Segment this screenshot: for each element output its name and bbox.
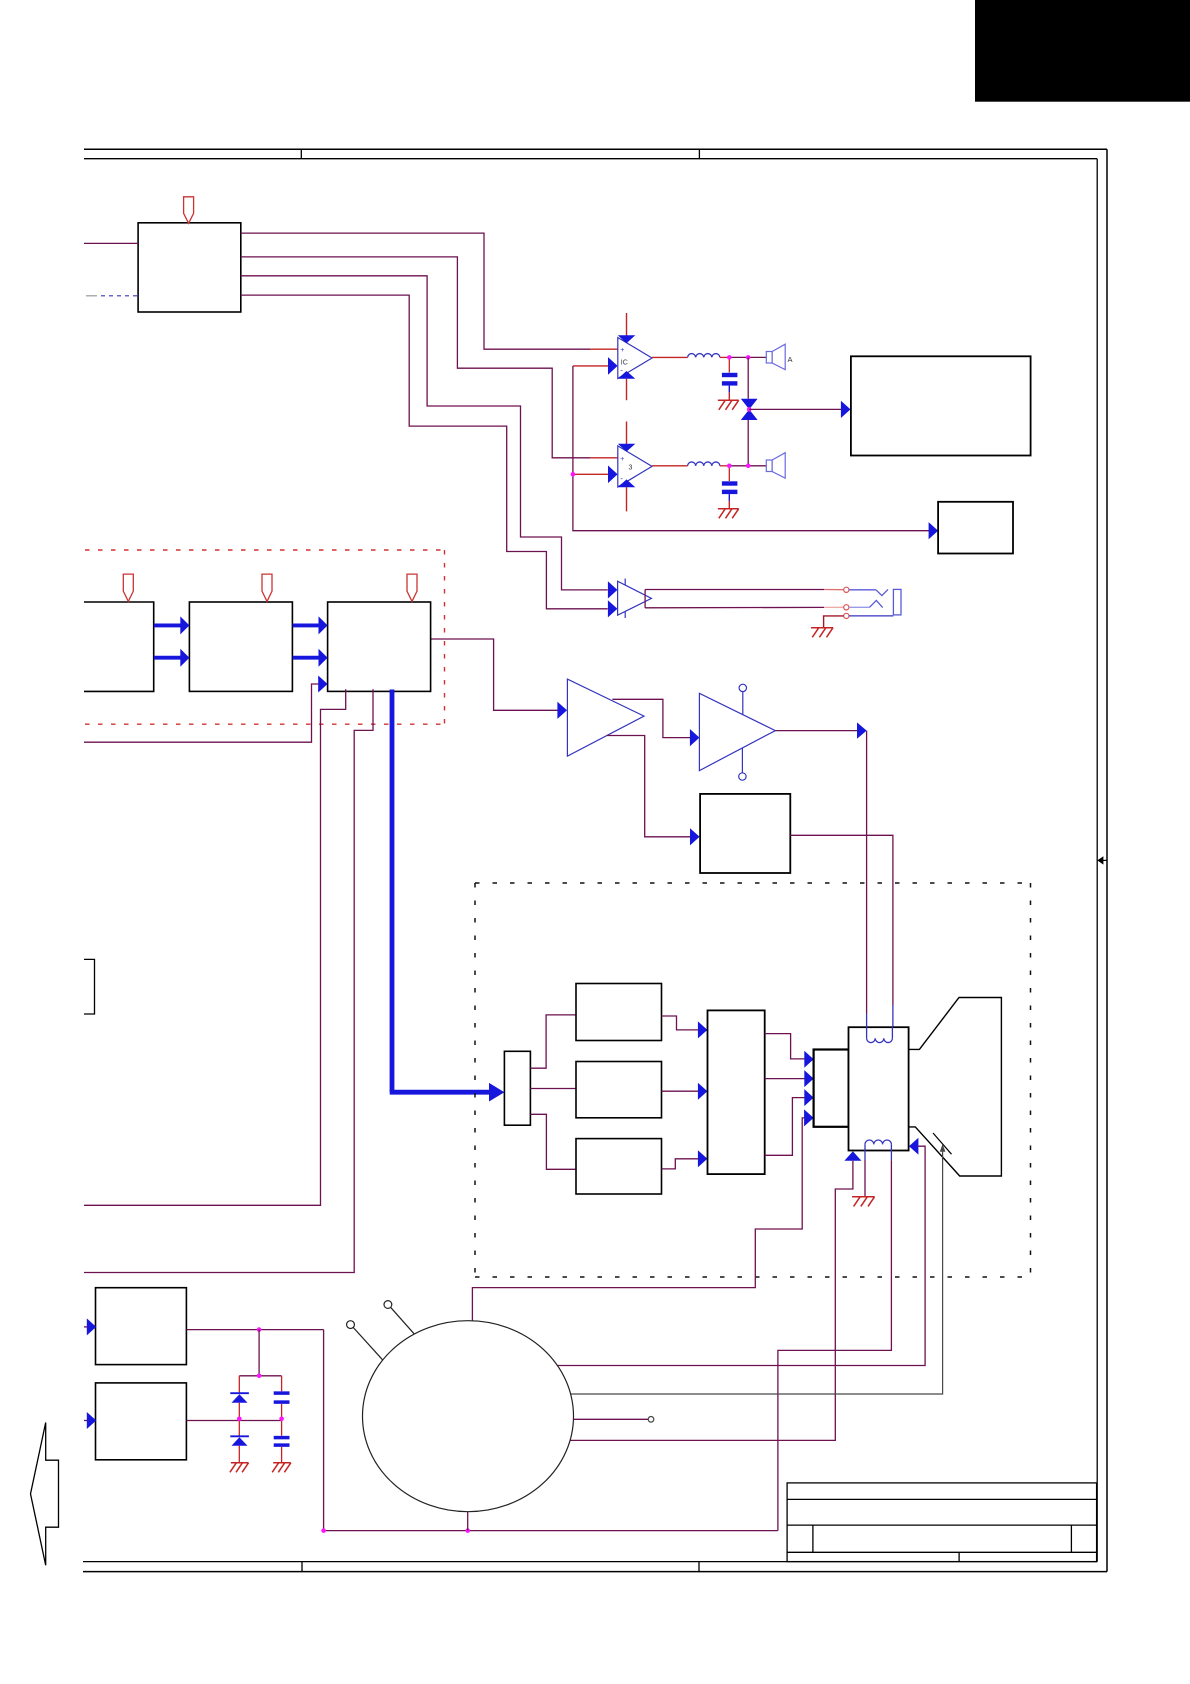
- heater lead 2: [353, 1328, 383, 1361]
- wire video block out to buffer T1: [430, 639, 557, 710]
- node junction L2/C2: [727, 464, 732, 469]
- buffer amp T1: [567, 679, 644, 756]
- block video output amp: [708, 1010, 765, 1174]
- bracket stub left edge: [84, 959, 95, 1014]
- block video chroma: [189, 602, 292, 691]
- wire heater from degauss top to CRT socket: [472, 1118, 804, 1321]
- diode D11: [238, 1376, 240, 1393]
- CRT socket block: [814, 1050, 849, 1127]
- speaker A: [766, 344, 785, 370]
- wire feedback into video block: [84, 684, 318, 742]
- wire video out pin 3 to CRT socket: [765, 1098, 805, 1156]
- wire B+ rail bottom: [324, 1530, 778, 1532]
- wire to diode pair: [747, 357, 749, 398]
- wire video block down bus B: [84, 689, 373, 1272]
- bus arrow chroma to video lower: [293, 656, 319, 660]
- diode pair D1 bidirectional: [741, 399, 758, 410]
- wire antenna stub into tuner: [84, 242, 138, 244]
- block audio output unit: [851, 356, 1031, 455]
- bus arrow IF to chroma upper: [154, 623, 181, 627]
- op-amp 3: [618, 446, 652, 487]
- thick video bus to yoke connector: [390, 690, 395, 1093]
- capacitor C12: [281, 1419, 283, 1436]
- capacitor C2: [728, 466, 730, 481]
- block IF stage: [84, 602, 154, 691]
- ground diode column: [230, 1463, 249, 1473]
- node junction L1/C1: [727, 355, 732, 360]
- ground below C2: [718, 509, 739, 519]
- drawing frame outer border: [83, 149, 1107, 1571]
- wire bottom coil right lead down: [778, 1160, 892, 1530]
- pin arrow headphone amp upper input: [608, 581, 618, 598]
- wire filter branch: [239, 1330, 281, 1376]
- wire op-amp IC output: [652, 356, 688, 358]
- wire tuner out 3 to headphone amp upper: [241, 276, 608, 590]
- jack terminal circle sleeve: [844, 613, 849, 618]
- pin arrow op-amp 3 inverting input: [573, 473, 608, 475]
- CRT funnel: [908, 998, 1001, 1177]
- capacitor C1: [728, 357, 730, 372]
- wire dashed data line into tuner: [86, 295, 97, 297]
- bus arrow IF to chroma lower: [154, 656, 181, 660]
- node junction speaker A tap: [746, 355, 751, 360]
- wire degauss R4 to flyback: [570, 1161, 853, 1441]
- wire video out pin 1 to CRT socket: [765, 1034, 805, 1059]
- wire tuner out 1 to amp IC +: [241, 233, 590, 349]
- wire diode node to mute block: [749, 408, 841, 410]
- svg-text:-: -: [620, 366, 623, 375]
- wire regulator A output: [186, 1329, 323, 1331]
- power stub top op-amp 3: [626, 422, 628, 445]
- frame zone tick top left: [300, 149, 302, 159]
- power stub bottom op-amp IC: [626, 379, 628, 400]
- wire connector to G drive block: [530, 1088, 576, 1090]
- wire video out pin 2 to CRT socket: [765, 1078, 805, 1080]
- wire regulator A to B+ rail: [323, 1330, 325, 1531]
- ground headphone jack: [811, 628, 833, 638]
- flyback transformer T501: [849, 1027, 909, 1150]
- title block: [787, 1483, 1097, 1562]
- dashed highlight box jungle section: [85, 550, 445, 724]
- yoke connector plug: [504, 1051, 530, 1125]
- frame continuation arrow right edge: [1097, 856, 1107, 864]
- wire R drive to video out: [662, 1016, 699, 1030]
- ground below C1: [718, 400, 739, 410]
- block sync processor: [700, 794, 790, 873]
- bias terminal top T2: [739, 684, 746, 691]
- node junction speaker B tap: [746, 464, 751, 469]
- wire feedback bus: [573, 366, 929, 531]
- wire op-amp 3 output: [652, 465, 688, 467]
- off-page arrow pointer left: [31, 1423, 59, 1566]
- wire T1 lower tap to sync block: [607, 736, 690, 837]
- frame zone tick bottom right: [698, 1562, 700, 1572]
- wire L1 to speaker A: [729, 356, 766, 358]
- pin arrow headphone amp lower input: [608, 600, 618, 617]
- pin arrow up into flyback bottom: [844, 1151, 861, 1161]
- wire bottom coil left to ground: [864, 1160, 866, 1197]
- wire B drive to video out: [662, 1159, 699, 1169]
- diode D12: [238, 1419, 240, 1436]
- node junction diode mid: [237, 1417, 242, 1422]
- inductor L2: [688, 462, 720, 466]
- wire CRT cathode to degauss R2: [571, 1145, 943, 1395]
- wire connector to R drive block: [530, 1015, 576, 1068]
- wire T2 output to flyback primary: [775, 730, 857, 732]
- wire video block down bus A: [84, 689, 346, 1205]
- block G drive: [576, 1062, 662, 1118]
- frame zone tick bottom left: [301, 1562, 303, 1572]
- wire G drive to video out: [662, 1090, 699, 1092]
- degauss coil CRT face: [363, 1321, 574, 1512]
- wire headphone right channel: [645, 606, 824, 608]
- svg-text:3: 3: [629, 465, 633, 472]
- block power regulator B: [96, 1383, 187, 1460]
- connector flag above IF block: [123, 574, 133, 601]
- winding top coil: [866, 1026, 868, 1038]
- header black block: [975, 0, 1190, 102]
- power stub bottom op-amp 3: [626, 487, 628, 511]
- svg-text:+: +: [620, 347, 624, 354]
- drawing frame inner border: [83, 159, 1097, 1562]
- block B drive: [576, 1139, 662, 1194]
- capacitor C11: [281, 1376, 283, 1392]
- dotted deflection section box: [475, 883, 1031, 1277]
- block R drive: [576, 984, 662, 1041]
- wire T1 upper tap to T2: [612, 699, 690, 737]
- wire regulator B output: [186, 1420, 281, 1422]
- wire tuner out 4 to headphone amp lower: [241, 295, 608, 609]
- svg-text:+: +: [620, 456, 624, 463]
- node junction cap mid: [279, 1417, 284, 1422]
- bus arrow chroma to video upper: [293, 623, 319, 627]
- wire degauss R1 to flyback right: [557, 1146, 925, 1365]
- block power regulator A: [96, 1288, 187, 1365]
- block surround decoder: [938, 502, 1013, 554]
- wire degauss bottom to rail: [467, 1512, 469, 1531]
- inductor L1: [688, 354, 720, 358]
- connector flag above video block: [407, 574, 417, 601]
- wire jack sleeve to ground: [824, 616, 844, 628]
- wire headphone left channel: [644, 590, 646, 608]
- svg-text:-: -: [620, 474, 623, 483]
- pin arrow op-amp IC inverting input: [573, 365, 608, 367]
- jack terminal circle ring: [844, 605, 849, 610]
- block video processor: [328, 602, 431, 691]
- wire tuner out 2 to amp 3 +: [241, 257, 590, 458]
- ground flyback: [852, 1197, 875, 1207]
- op-amp IC: [618, 338, 652, 379]
- wire degauss R3 open terminal: [573, 1418, 648, 1420]
- winding bottom coil: [865, 1140, 891, 1144]
- wire connector to B drive block: [530, 1114, 576, 1169]
- frame zone tick top right: [698, 149, 700, 159]
- svg-text:A: A: [788, 355, 793, 364]
- pin arrow left into flyback right: [909, 1138, 918, 1155]
- CRT gun stroke: [933, 1133, 952, 1154]
- bias terminal bottom T2: [739, 773, 746, 780]
- connector flag above tuner: [184, 197, 194, 224]
- headphone amp triangle: [618, 581, 652, 615]
- ground capacitor column: [272, 1463, 291, 1473]
- speaker B: [766, 453, 785, 479]
- heater lead 1: [391, 1307, 414, 1333]
- wire L2 to speaker B: [729, 465, 766, 467]
- power stub top op-amp IC: [626, 313, 628, 336]
- tuner block U101: [138, 223, 241, 312]
- connector flag above chroma block: [262, 574, 272, 601]
- headphone jack J1: [849, 589, 901, 616]
- driver amp T2: [699, 693, 775, 770]
- jack terminal circle tip: [844, 587, 849, 592]
- wire sync block to flyback primary right: [790, 835, 893, 1005]
